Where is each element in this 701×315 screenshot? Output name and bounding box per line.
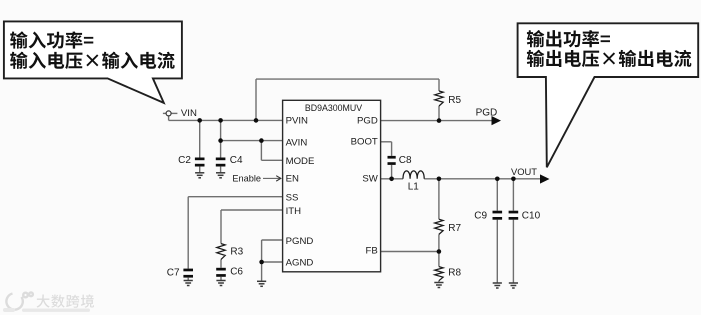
wire: SW rail	[381, 178, 403, 180]
wire: VIN main rail to PVIN	[169, 119, 283, 121]
wire: C2 branch	[199, 120, 201, 157]
wire: SS drop to C7	[187, 197, 189, 269]
capacitor C7	[183, 269, 193, 278]
capacitor C10	[509, 211, 519, 220]
svg-text:C9: C9	[474, 211, 487, 222]
wire: R8 top lead	[438, 252, 440, 267]
watermark small line	[3, 308, 90, 312]
node J (C9 tap)	[495, 177, 500, 182]
wire: R7 to FB node	[438, 234, 440, 251]
wire: top rail to R5	[256, 78, 439, 80]
wire: C10 ground drop	[512, 220, 514, 283]
svg-text:ITH: ITH	[286, 206, 302, 217]
wire: PGD rail	[381, 120, 492, 122]
inductor L1	[403, 171, 424, 179]
wire: MODE rail	[261, 159, 282, 161]
ground (C9)	[493, 283, 502, 288]
svg-text:BD9A300MUV: BD9A300MUV	[305, 103, 362, 113]
node F (R5/PGD)	[437, 118, 442, 123]
svg-text:FB: FB	[366, 245, 378, 256]
wire: C9 drop	[496, 179, 498, 211]
wire: R8 ground stub	[438, 281, 440, 283]
wire: riser to top rail	[255, 79, 257, 120]
svg-text:PGND: PGND	[286, 236, 314, 247]
wire: C2 to ground stub	[199, 167, 201, 173]
resistor R5	[435, 91, 443, 106]
svg-text:R3: R3	[230, 247, 243, 258]
callout: output power formula	[518, 23, 699, 167]
arrow VOUT output	[540, 174, 550, 183]
svg-text:R8: R8	[448, 268, 461, 279]
wire: VOUT rail	[424, 178, 540, 180]
svg-text:SW: SW	[362, 173, 378, 184]
svg-text:EN: EN	[286, 173, 299, 184]
resistor R3	[217, 244, 225, 260]
svg-text:PVIN: PVIN	[286, 116, 308, 127]
svg-text:C10: C10	[522, 211, 541, 222]
watermark logo	[6, 292, 33, 309]
wire: R5 bottom lead	[438, 106, 440, 121]
terminal VIN (input pin)	[163, 111, 178, 116]
wire: AGND rail	[262, 261, 283, 263]
node G (C8/SW)	[389, 177, 394, 182]
capacitor C4	[216, 158, 226, 167]
node L (PGND/AGND)	[259, 260, 264, 265]
node H (L1 out)	[437, 177, 442, 182]
wire: SS rail	[188, 196, 282, 198]
node K (C10 tap)	[511, 177, 516, 182]
wire: ITH drop to R3	[220, 210, 222, 244]
wire: C8 to SW drop	[391, 165, 393, 179]
callout: input power formula	[4, 21, 182, 103]
svg-text:BOOT: BOOT	[351, 136, 378, 147]
svg-text:L1: L1	[408, 182, 420, 193]
node I (FB divider)	[437, 249, 442, 254]
wire: PGND drop	[261, 240, 263, 262]
wire: C10 drop	[512, 179, 514, 211]
svg-text:R7: R7	[448, 223, 461, 234]
ground (C2)	[195, 173, 204, 178]
wire: R3 to C6	[220, 259, 222, 267]
wire: AVIN rail	[221, 140, 283, 142]
node B (C4 tap)	[218, 118, 223, 123]
svg-text:SS: SS	[286, 192, 299, 203]
wire: VIN terminal drop	[168, 116, 170, 121]
capacitor C6	[216, 268, 226, 277]
ground (C10)	[509, 283, 518, 288]
wire: C6 ground stub	[220, 277, 222, 281]
wire: AGND ground drop	[261, 262, 263, 281]
svg-text:VIN: VIN	[181, 108, 197, 119]
watermark text	[37, 295, 50, 308]
wire: MODE drop	[260, 141, 262, 161]
wire: C9 ground drop	[496, 220, 498, 283]
node C (top-rail tap)	[254, 118, 259, 123]
wire: C7 ground stub	[187, 278, 189, 281]
ground (C4)	[216, 173, 225, 178]
node D (AVIN tap)	[218, 138, 223, 143]
node A (C2 tap)	[197, 118, 202, 123]
ground (C6)	[216, 281, 225, 286]
arrow PGD output	[492, 116, 502, 125]
capacitor C8	[388, 156, 396, 165]
ground (PGND/AGND)	[257, 281, 266, 286]
wire: FB rail	[381, 251, 439, 253]
svg-text:C4: C4	[230, 155, 243, 166]
svg-text:C6: C6	[230, 267, 243, 278]
ground (R8)	[434, 283, 443, 288]
wire: PGND rail	[262, 239, 283, 241]
svg-text:AVIN: AVIN	[286, 138, 308, 149]
wire: ITH rail	[221, 209, 283, 211]
capacitor C9	[493, 211, 503, 220]
op-amp U1 BD9A300MUV (regulator IC body)	[283, 100, 381, 271]
wire: BOOT drop to C8	[391, 142, 393, 156]
wire: C4 branch	[220, 120, 222, 157]
svg-text:MODE: MODE	[286, 156, 315, 167]
wire: BOOT rail	[381, 141, 392, 143]
svg-text:PGD: PGD	[357, 116, 378, 127]
svg-text:VOUT: VOUT	[511, 166, 537, 177]
enable arrow into EN pin	[263, 176, 281, 181]
wire: R5 top lead	[438, 79, 440, 91]
svg-text:R5: R5	[448, 95, 461, 106]
ground (C7)	[184, 281, 193, 286]
wire: C4 to ground stub	[220, 167, 222, 173]
svg-text:C8: C8	[399, 155, 412, 166]
svg-text:AGND: AGND	[286, 257, 314, 268]
capacitor C2	[195, 158, 205, 167]
svg-text:C7: C7	[167, 267, 180, 278]
svg-text:PGD: PGD	[476, 107, 498, 118]
svg-text:Enable: Enable	[232, 173, 261, 183]
resistor R7	[435, 219, 443, 234]
resistor R8	[435, 267, 443, 281]
wire: R7 top lead	[438, 179, 440, 219]
node E (MODE tap)	[259, 138, 264, 143]
svg-text:C2: C2	[178, 155, 191, 166]
